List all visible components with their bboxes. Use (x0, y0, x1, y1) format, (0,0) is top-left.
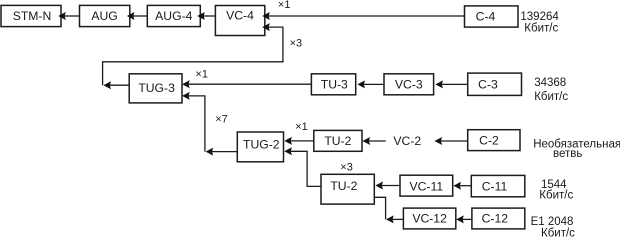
arrow into STM-N (58, 12, 66, 20)
box AUG-4 (147, 5, 200, 26)
arrow into VC-2 (435, 137, 443, 145)
arrow at TUG-2 output riser (206, 148, 214, 156)
arrow into TUG-2 lower (284, 147, 292, 155)
svg-text:TU-2: TU-2 (324, 134, 351, 148)
svg-text:Кбит/с: Кбит/с (539, 190, 573, 202)
svg-text:×3: ×3 (340, 162, 353, 174)
arrow into TU-3 (357, 80, 365, 88)
svg-text:139264: 139264 (520, 11, 559, 23)
svg-text:TU-2: TU-2 (330, 179, 357, 193)
wire TUG-2 output (211, 151, 237, 153)
box C-4 (465, 6, 519, 27)
wire VC-11 to TU-2 row4 (381, 185, 400, 187)
wire x3 elbow from TUG-3 riser to VC-4 (103, 27, 283, 85)
arrow into TUG-3 lower (182, 92, 190, 100)
box VC-12 (403, 208, 455, 229)
box TUG-3 (129, 74, 182, 103)
box STM-N (1, 5, 61, 26)
wire TUG-3 output (109, 84, 129, 86)
svg-text:×3: ×3 (290, 37, 303, 49)
arrow into TUG-3 upper (182, 80, 190, 88)
wire TU-3 to TUG-3 (x1 line) (188, 83, 312, 85)
box VC-11 (400, 175, 453, 196)
box C-3 (468, 73, 522, 95)
arrow into AUG (127, 12, 135, 20)
arrow into VC-4 upper (262, 12, 270, 20)
svg-text:STM-N: STM-N (13, 9, 52, 23)
box AUG (80, 5, 130, 26)
wire C-12 to VC-12 (462, 218, 472, 220)
arrow at TUG-3 output riser (103, 81, 111, 89)
svg-text:Кбит/с: Кбит/с (524, 22, 558, 34)
box TUG-2 (237, 132, 283, 162)
arrow into VC-3 (435, 80, 443, 88)
svg-text:TUG-3: TUG-3 (138, 81, 175, 95)
arrow into VC-4 lower (262, 23, 270, 31)
box C-11 (471, 175, 525, 196)
svg-text:VC-2: VC-2 (393, 134, 421, 148)
wire VC-3 to TU-3 (363, 83, 384, 85)
wire AUG to STM-N (64, 15, 80, 17)
box C-12 (472, 208, 525, 229)
box VC-3 (384, 74, 434, 95)
svg-text:C-4: C-4 (476, 10, 496, 24)
wire C-3 to VC-3 (441, 83, 468, 85)
box TU-3 (311, 74, 355, 95)
arrow into VC-12 (456, 215, 464, 223)
svg-text:C-2: C-2 (479, 133, 499, 147)
svg-text:×1: ×1 (278, 0, 291, 11)
box TU-2 row4 (321, 174, 374, 204)
svg-text:C-11: C-11 (482, 179, 508, 193)
arrow at branch riser bottom (386, 215, 394, 223)
arrow into TU-2 row4 (375, 182, 383, 190)
svg-text:×1: ×1 (295, 121, 308, 133)
svg-text:C-3: C-3 (478, 78, 498, 92)
svg-text:VC-3: VC-3 (395, 78, 423, 92)
wire AUG-4 to AUG (133, 15, 148, 17)
arrow into AUG-4 (197, 12, 205, 20)
box VC-4 (215, 6, 264, 36)
svg-text:Кбит/с: Кбит/с (534, 91, 568, 103)
svg-text:34368: 34368 (534, 77, 566, 89)
wire TU-2 row3 to TUG-2 (x1 line) (290, 140, 314, 142)
svg-text:×1: ×1 (195, 69, 208, 81)
wire VC-4 to AUG-4 (203, 15, 215, 17)
wire branch TU-2 row4 down to VC-12 level (374, 197, 385, 219)
svg-text:VC-12: VC-12 (412, 212, 447, 226)
svg-text:ветвь: ветвь (553, 148, 582, 160)
wire C-4 to VC-4 (x1 line) (268, 15, 465, 17)
svg-text:TUG-2: TUG-2 (243, 137, 280, 151)
wire x7 riser from TUG-2 to TUG-3 (188, 96, 205, 152)
wire VC-12 to branch arrow (392, 218, 404, 220)
wire x3 riser from TU-2 row4 to TUG-2 (290, 151, 321, 186)
wire VC-2 to TU-2 row3 (368, 140, 386, 142)
arrow into TUG-2 upper (284, 137, 292, 145)
wire C-11 to VC-11 (459, 185, 471, 187)
arrow into TU-2 row3 (363, 137, 371, 145)
arrow into VC-11 (453, 182, 461, 190)
svg-text:AUG: AUG (91, 9, 117, 23)
svg-text:TU-3: TU-3 (321, 78, 348, 92)
svg-text:VC-4: VC-4 (226, 9, 254, 23)
wire C-2 to VC-2 (440, 140, 467, 142)
svg-text:VC-11: VC-11 (409, 179, 443, 193)
svg-text:AUG-4: AUG-4 (155, 9, 192, 23)
box TU-2 row3 (314, 130, 362, 151)
svg-text:Кбит/с: Кбит/с (541, 227, 575, 239)
box C-2 (468, 130, 520, 151)
svg-text:×7: ×7 (215, 114, 228, 126)
svg-text:C-12: C-12 (482, 212, 509, 226)
